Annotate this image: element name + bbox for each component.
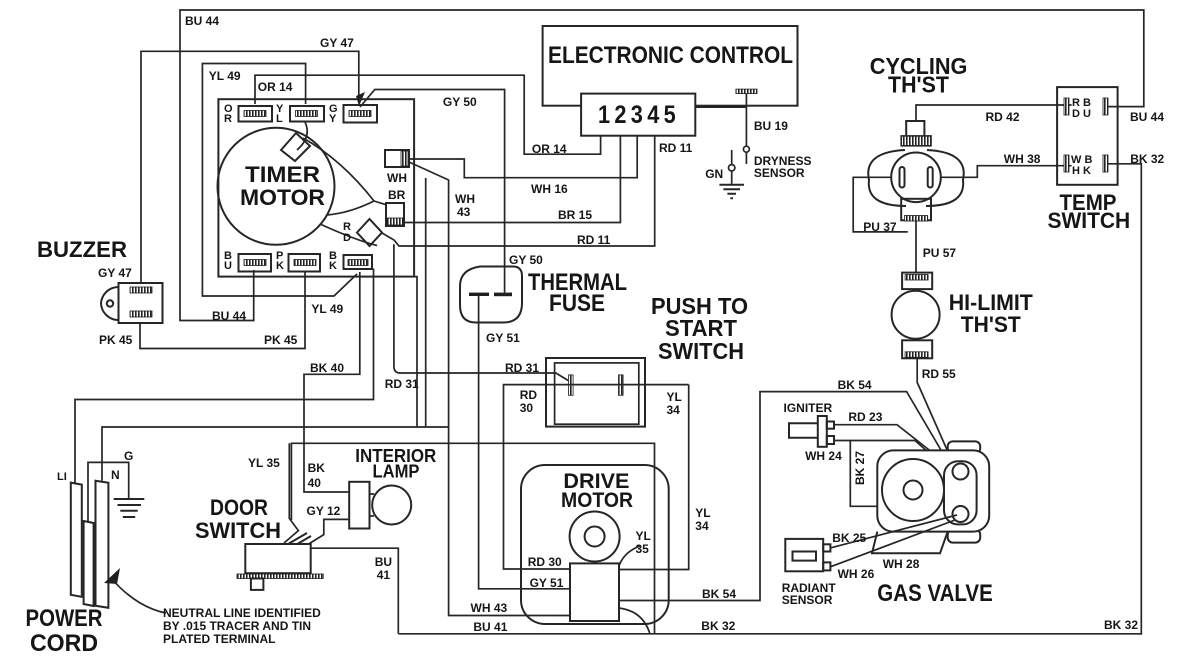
wire WH24 (834, 441, 947, 470)
svg-text:LI: LI (57, 471, 67, 483)
timer motor circle (218, 128, 335, 245)
power cord N blade (96, 481, 109, 608)
svg-text:BK 25: BK 25 (832, 531, 866, 545)
svg-text:BK 54: BK 54 (702, 587, 736, 601)
svg-text:BK 27: BK 27 (853, 451, 867, 485)
wire YL35 curve (619, 546, 640, 566)
wire WH43 (409, 162, 570, 616)
connector 12345 box (581, 94, 695, 136)
svg-text:GAS VALVE: GAS VALVE (877, 580, 993, 607)
wire BK27 (850, 441, 879, 506)
svg-text:BR 15: BR 15 (558, 208, 592, 222)
svg-text:G: G (124, 449, 133, 463)
svg-text:SWITCH: SWITCH (658, 338, 744, 364)
svg-text:RD 55: RD 55 (922, 367, 956, 381)
wire RD31 from diamond (394, 244, 569, 381)
svg-text:CORD: CORD (30, 630, 98, 657)
wire BU44 outer loop (180, 10, 1144, 321)
interior lamp bulb (372, 486, 411, 525)
svg-text:FUSE: FUSE (549, 290, 605, 317)
wire RD55 (917, 358, 952, 461)
svg-text:YL 49: YL 49 (209, 69, 241, 83)
svg-text:U: U (224, 260, 232, 272)
wire BK40 (304, 272, 360, 492)
arrowhead GY47 into GY terminal (356, 92, 365, 106)
svg-text:BK 32: BK 32 (1104, 618, 1138, 632)
power cord LI blade (71, 483, 82, 597)
motor terminal block (570, 563, 619, 621)
svg-text:GY 12: GY 12 (307, 504, 341, 518)
svg-text:K: K (276, 260, 284, 272)
svg-text:BU 19: BU 19 (754, 119, 788, 133)
wire GY51 (479, 296, 570, 589)
svg-text:GY 51: GY 51 (486, 331, 520, 345)
ground symbol GN (719, 185, 744, 199)
thermal fuse body (460, 267, 522, 323)
svg-text:BU 41: BU 41 (473, 620, 507, 634)
svg-text:WH 24: WH 24 (805, 449, 842, 463)
svg-text:WH: WH (387, 171, 407, 185)
svg-text:DOOR: DOOR (210, 495, 268, 520)
motor circle (570, 512, 620, 562)
svg-text:GY 50: GY 50 (443, 95, 477, 109)
terminal PK (276, 250, 320, 272)
temp switch terminal WB HK (1064, 154, 1108, 177)
gas valve body (872, 441, 989, 553)
svg-text:ELECTRONIC CONTROL: ELECTRONIC CONTROL (548, 42, 793, 69)
svg-text:WH 26: WH 26 (838, 567, 875, 581)
radiant sensor (785, 539, 830, 571)
svg-text:BU 44: BU 44 (185, 14, 219, 28)
svg-text:BR: BR (388, 188, 406, 202)
svg-text:41: 41 (377, 568, 391, 582)
svg-text:N: N (111, 468, 120, 482)
arrow neutral pointer (104, 568, 120, 584)
svg-text:34: 34 (695, 519, 709, 533)
terminal GY (329, 103, 377, 125)
svg-text:PLATED TERMINAL: PLATED TERMINAL (163, 632, 275, 646)
thermal fuse bars (469, 293, 489, 296)
wire GY12 (307, 519, 349, 545)
cycling thermostat body (868, 121, 964, 221)
wire RD11 (382, 136, 655, 246)
wire G loop (88, 462, 129, 521)
svg-text:LAMP: LAMP (373, 462, 420, 482)
svg-text:BY .015 TRACER AND TIN: BY .015 TRACER AND TIN (163, 619, 311, 633)
svg-text:BK 32: BK 32 (1130, 152, 1164, 166)
interior lamp socket (349, 482, 369, 529)
svg-text:OR 14: OR 14 (532, 142, 567, 156)
svg-text:43: 43 (457, 205, 471, 219)
svg-text:YL: YL (667, 390, 682, 404)
buzzer (101, 283, 163, 323)
wire mid vertical a (414, 277, 417, 427)
svg-text:YL: YL (636, 529, 651, 543)
wire RD30 (504, 385, 689, 569)
hi-limit thermostat (892, 273, 940, 359)
svg-text:12345: 12345 (598, 101, 680, 129)
temp switch terminal RB DU (1064, 97, 1108, 120)
svg-text:BU: BU (375, 555, 392, 569)
terminal bar BU19 (736, 89, 757, 94)
terminal BR (386, 188, 406, 226)
wire GY47 (141, 51, 359, 285)
svg-text:RD 23: RD 23 (848, 410, 882, 424)
svg-text:H K: H K (1072, 165, 1091, 177)
svg-text:TH'ST: TH'ST (961, 312, 1022, 337)
svg-text:IGNITER: IGNITER (784, 401, 833, 415)
svg-text:WH 38: WH 38 (1004, 152, 1041, 166)
enclosure line lamp/motor (291, 443, 654, 634)
svg-text:D U: D U (1072, 108, 1091, 120)
svg-text:35: 35 (636, 542, 650, 556)
svg-text:GY 47: GY 47 (320, 36, 354, 50)
svg-text:RD 30: RD 30 (528, 555, 562, 569)
wire YL34 (619, 385, 689, 570)
timer YL49 loop (202, 64, 357, 297)
wire WH16 (409, 136, 637, 178)
svg-text:R: R (224, 113, 232, 125)
svg-text:BK 54: BK 54 (838, 378, 872, 392)
svg-text:YL 49: YL 49 (311, 302, 343, 316)
svg-text:SENSOR: SENSOR (754, 166, 805, 180)
svg-text:BU 44: BU 44 (1130, 110, 1164, 124)
svg-text:RD 31: RD 31 (385, 377, 419, 391)
svg-text:SWITCH: SWITCH (1048, 208, 1131, 233)
wire YL35 to door lever (284, 443, 298, 543)
wire BK54 (619, 392, 948, 601)
wire mid vertical b (425, 178, 427, 427)
svg-text:SWITCH: SWITCH (195, 518, 281, 543)
wire RD42 (916, 105, 1072, 121)
timer OR14 loop (255, 75, 601, 154)
wire RD23 (834, 425, 947, 464)
terminal YL (276, 103, 324, 125)
terminal RD diamond (343, 219, 382, 246)
wire WH38 (941, 166, 1072, 178)
svg-text:WH 16: WH 16 (531, 182, 568, 196)
svg-text:YL 35: YL 35 (248, 456, 280, 470)
svg-text:D: D (343, 232, 351, 244)
timer inner box (218, 99, 414, 276)
push switch contact 2 (619, 375, 624, 395)
svg-text:PU 37: PU 37 (863, 220, 897, 234)
svg-text:WH 28: WH 28 (883, 557, 920, 571)
terminal OR (224, 103, 272, 125)
terminal BU (224, 250, 271, 272)
push to start switch box (546, 358, 645, 427)
svg-text:BUZZER: BUZZER (37, 237, 127, 262)
wire PU37 (853, 177, 908, 232)
wire LI up (75, 269, 374, 483)
wire BK32 from temp switch (1108, 164, 1141, 635)
wire BK32 bottom (398, 608, 1141, 634)
svg-text:RD 11: RD 11 (659, 141, 693, 155)
svg-text:34: 34 (667, 403, 681, 417)
svg-text:BK 40: BK 40 (310, 361, 344, 375)
svg-text:GY 50: GY 50 (509, 253, 543, 267)
svg-text:GY 47: GY 47 (98, 266, 132, 280)
svg-text:30: 30 (520, 401, 534, 415)
door switch base (237, 574, 323, 579)
wire PK45 (140, 272, 305, 349)
svg-text:TH'ST: TH'ST (888, 72, 949, 98)
wire EC to BU19 (695, 94, 746, 146)
terminal BK (329, 250, 372, 272)
terminal WH (385, 150, 409, 185)
wire BU41 from door switch (311, 548, 399, 634)
svg-text:PU 57: PU 57 (923, 246, 957, 260)
svg-text:OR 14: OR 14 (258, 80, 293, 94)
door switch body (245, 544, 310, 573)
timer curve wires (297, 122, 307, 150)
svg-text:WH: WH (455, 192, 475, 206)
push switch contact 1 (569, 375, 574, 395)
svg-text:K: K (329, 260, 337, 272)
wire GY50 path (360, 90, 505, 293)
wire N up (102, 427, 449, 481)
electronic control box (543, 26, 798, 106)
GN switch contact (731, 150, 733, 164)
svg-text:RD 42: RD 42 (986, 110, 1020, 124)
svg-text:PK 45: PK 45 (264, 333, 298, 347)
svg-text:Y: Y (329, 113, 337, 125)
svg-text:SENSOR: SENSOR (782, 593, 833, 607)
dryness sensor contact (743, 146, 749, 152)
svg-text:NEUTRAL LINE IDENTIFIED: NEUTRAL LINE IDENTIFIED (163, 606, 321, 620)
temp switch box (1057, 87, 1118, 185)
ground symbol power cord (114, 499, 145, 517)
svg-text:MOTOR: MOTOR (240, 185, 325, 210)
svg-text:TIMER: TIMER (245, 162, 320, 187)
wire PU57 (915, 220, 917, 272)
svg-text:40: 40 (308, 476, 322, 490)
svg-text:BK 32: BK 32 (701, 619, 735, 633)
svg-text:RD 31: RD 31 (505, 361, 539, 375)
wire WH26 (830, 520, 955, 567)
power cord middle blade (84, 521, 94, 606)
door switch lever (283, 533, 311, 550)
wire BK25 (830, 515, 957, 548)
igniter (789, 416, 834, 447)
drive motor box (521, 465, 669, 624)
door switch foot (251, 579, 264, 590)
svg-text:POWER: POWER (26, 605, 103, 632)
svg-text:L: L (276, 113, 283, 125)
svg-text:PK 45: PK 45 (99, 333, 133, 347)
svg-text:RD 11: RD 11 (577, 233, 611, 247)
svg-text:GN: GN (705, 167, 723, 181)
svg-text:YL: YL (695, 506, 710, 520)
svg-text:MOTOR: MOTOR (561, 489, 633, 512)
svg-text:WH 43: WH 43 (471, 601, 508, 615)
wire BR15 (404, 136, 620, 223)
svg-text:GY 51: GY 51 (530, 576, 564, 590)
svg-text:BK: BK (308, 461, 326, 475)
svg-text:RD: RD (520, 388, 538, 402)
timer cam tilted square (281, 133, 310, 161)
svg-text:BU 44: BU 44 (212, 309, 246, 323)
